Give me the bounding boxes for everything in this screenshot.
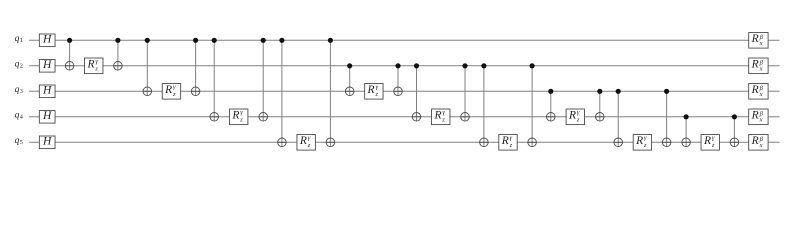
svg-text:5: 5 <box>20 139 23 146</box>
svg-text:z: z <box>172 91 176 98</box>
qubit label q3 <box>15 85 23 95</box>
svg-text:R: R <box>751 84 759 96</box>
CNOT e45-first: vertical line q4->q5 <box>685 117 687 147</box>
CNOT e34-second: control dot on q3 <box>597 89 602 94</box>
gate Rz^gamma e35 on q5 <box>633 134 651 150</box>
CNOT e24-second: control dot on q2 <box>462 63 467 68</box>
svg-text:4: 4 <box>20 114 24 121</box>
svg-text:γ: γ <box>577 109 580 116</box>
svg-text:γ: γ <box>442 109 445 116</box>
CNOT e35-first: vertical line q3->q5 <box>617 91 619 146</box>
svg-text:x: x <box>759 117 763 124</box>
CNOT e34-first: control dot on q3 <box>548 89 553 94</box>
CNOT e23-second: control dot on q2 <box>395 63 400 68</box>
gate Rz^gamma e24 on q4 <box>432 109 450 125</box>
svg-text:H: H <box>42 136 52 148</box>
svg-text:R: R <box>751 59 759 71</box>
CNOT e12-second: control dot on q1 <box>115 38 120 43</box>
CNOT e45-first: control dot on q4 <box>684 114 689 119</box>
CNOT e45-second: control dot on q4 <box>732 114 737 119</box>
svg-text:z: z <box>441 117 445 124</box>
gate Rz^gamma e15 on q5 <box>297 134 315 150</box>
CNOT e23-first: vertical line q2->q3 <box>349 66 351 96</box>
CNOT e12-second: vertical line q1->q2 <box>117 40 119 70</box>
wire q5 <box>29 141 780 143</box>
svg-text:R: R <box>501 135 509 147</box>
svg-text:γ: γ <box>510 134 513 141</box>
CNOT e45-second: vertical line q4->q5 <box>733 117 735 147</box>
CNOT e15-second: vertical line q1->q5 <box>329 40 331 146</box>
svg-text:x: x <box>759 66 763 73</box>
CNOT e24-first: target oplus on q4 <box>412 113 421 122</box>
CNOT e25-second: target oplus on q5 <box>528 138 537 147</box>
CNOT e15-second: target oplus on q5 <box>326 138 335 147</box>
CNOT e23-second: target oplus on q3 <box>394 87 403 96</box>
svg-text:z: z <box>576 117 580 124</box>
CNOT e14-first: control dot on q1 <box>212 38 217 43</box>
svg-text:γ: γ <box>712 134 715 141</box>
svg-text:R: R <box>751 110 759 122</box>
qubit label q5 <box>15 136 23 146</box>
CNOT e15-first: target oplus on q5 <box>278 138 287 147</box>
CNOT e35-second: vertical line q3->q5 <box>666 91 668 146</box>
CNOT e15-first: control dot on q1 <box>279 38 284 43</box>
gate H on q1 <box>39 34 55 47</box>
svg-text:H: H <box>42 85 52 97</box>
CNOT e13-first: control dot on q1 <box>145 38 150 43</box>
CNOT e14-second: vertical line q1->q4 <box>262 40 264 121</box>
gate Rz^gamma e12 on q2 <box>85 58 103 74</box>
gate Rx^beta on q1 <box>749 33 768 49</box>
gate Rz^gamma e14 on q4 <box>230 109 248 125</box>
svg-text:γ: γ <box>95 58 98 65</box>
qubit label q2 <box>15 59 23 69</box>
CNOT e24-first: vertical line q2->q4 <box>416 66 418 121</box>
gate H on q2 <box>39 59 55 72</box>
svg-text:γ: γ <box>644 134 647 141</box>
gate Rz^gamma e13 on q3 <box>162 83 180 99</box>
svg-text:γ: γ <box>308 134 311 141</box>
CNOT e14-first: vertical line q1->q4 <box>213 40 215 121</box>
CNOT e13-first: target oplus on q3 <box>143 87 152 96</box>
CNOT e14-first: target oplus on q4 <box>210 113 219 122</box>
svg-text:γ: γ <box>240 109 243 116</box>
CNOT e35-second: target oplus on q5 <box>662 138 671 147</box>
svg-text:γ: γ <box>375 83 378 90</box>
svg-text:H: H <box>42 110 52 122</box>
CNOT e12-first: control dot on q1 <box>67 38 72 43</box>
svg-text:x: x <box>759 91 763 98</box>
svg-text:R: R <box>635 135 643 147</box>
gate Rz^gamma e34 on q4 <box>566 109 584 125</box>
gate Rx^beta on q5 <box>749 135 768 151</box>
gate Rz^gamma e45 on q5 <box>701 134 719 150</box>
CNOT e13-second: control dot on q1 <box>193 38 198 43</box>
svg-text:z: z <box>509 142 513 149</box>
CNOT e15-second: control dot on q1 <box>328 38 333 43</box>
svg-text:R: R <box>751 135 759 147</box>
CNOT e24-second: vertical line q2->q4 <box>464 66 466 121</box>
CNOT e45-first: target oplus on q5 <box>682 138 691 147</box>
CNOT e12-second: target oplus on q2 <box>114 62 123 71</box>
CNOT e45-second: target oplus on q5 <box>730 138 739 147</box>
wire q4 <box>29 116 780 118</box>
svg-text:1: 1 <box>20 37 23 44</box>
CNOT e25-second: control dot on q2 <box>530 63 535 68</box>
CNOT e12-first: vertical line q1->q2 <box>69 40 71 70</box>
CNOT e15-first: vertical line q1->q5 <box>281 40 283 146</box>
svg-text:x: x <box>759 142 763 149</box>
svg-text:R: R <box>86 59 94 71</box>
svg-text:R: R <box>703 135 711 147</box>
CNOT e23-second: vertical line q2->q3 <box>397 66 399 96</box>
CNOT e24-first: control dot on q2 <box>414 63 419 68</box>
CNOT e34-first: target oplus on q4 <box>547 113 556 122</box>
svg-text:z: z <box>711 142 715 149</box>
CNOT e23-first: target oplus on q3 <box>345 87 354 96</box>
svg-text:2: 2 <box>20 63 23 70</box>
svg-text:R: R <box>299 135 307 147</box>
CNOT e34-first: vertical line q3->q4 <box>550 91 552 121</box>
svg-text:z: z <box>94 66 98 73</box>
CNOT e14-second: control dot on q1 <box>261 38 266 43</box>
CNOT e13-first: vertical line q1->q3 <box>146 40 148 95</box>
qubit label q4 <box>15 110 24 120</box>
svg-text:R: R <box>231 110 239 122</box>
svg-text:x: x <box>759 40 763 47</box>
wire q2 <box>29 65 780 67</box>
CNOT e34-second: target oplus on q4 <box>596 113 605 122</box>
CNOT e13-second: vertical line q1->q3 <box>195 40 197 95</box>
CNOT e34-second: vertical line q3->q4 <box>599 91 601 121</box>
gate H on q4 <box>39 110 55 123</box>
svg-text:R: R <box>367 84 375 96</box>
svg-text:γ: γ <box>173 83 176 90</box>
svg-text:z: z <box>307 142 311 149</box>
gate Rx^beta on q2 <box>749 58 768 74</box>
CNOT e23-first: control dot on q2 <box>347 63 352 68</box>
CNOT e25-second: vertical line q2->q5 <box>531 66 533 147</box>
svg-text:H: H <box>42 59 52 71</box>
CNOT e35-second: control dot on q3 <box>664 89 669 94</box>
CNOT e35-first: target oplus on q5 <box>614 138 623 147</box>
svg-text:R: R <box>164 84 172 96</box>
gate Rx^beta on q4 <box>749 109 768 125</box>
CNOT e25-first: control dot on q2 <box>481 63 486 68</box>
gate H on q5 <box>39 136 55 149</box>
gate Rz^gamma e25 on q5 <box>499 134 517 150</box>
svg-text:z: z <box>374 91 378 98</box>
svg-text:3: 3 <box>20 88 23 95</box>
svg-text:z: z <box>239 117 243 124</box>
gate Rz^gamma e23 on q3 <box>365 83 383 99</box>
wire q3 <box>29 90 780 92</box>
gate Rx^beta on q3 <box>749 84 768 100</box>
svg-text:H: H <box>42 34 52 46</box>
svg-text:z: z <box>643 142 647 149</box>
svg-text:R: R <box>568 110 576 122</box>
svg-text:R: R <box>433 110 441 122</box>
qubit label q1 <box>15 34 23 44</box>
CNOT e25-first: vertical line q2->q5 <box>483 66 485 147</box>
CNOT e25-first: target oplus on q5 <box>480 138 489 147</box>
CNOT e24-second: target oplus on q4 <box>461 113 470 122</box>
svg-text:R: R <box>751 33 759 45</box>
CNOT e13-second: target oplus on q3 <box>191 87 200 96</box>
CNOT e35-first: control dot on q3 <box>616 89 621 94</box>
CNOT e14-second: target oplus on q4 <box>259 113 268 122</box>
wire q1 <box>29 39 780 41</box>
gate H on q3 <box>39 85 55 98</box>
CNOT e12-first: target oplus on q2 <box>65 62 74 71</box>
